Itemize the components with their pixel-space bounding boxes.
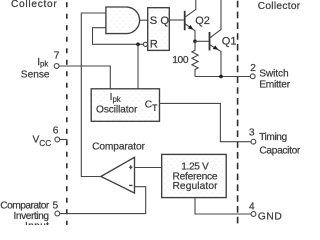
svg-text:GND: GND bbox=[258, 212, 282, 223]
IC boundary left dashed line bbox=[66, 0, 68, 225]
wire AND gate output to latch S input bbox=[140, 19, 148, 21]
svg-text:2: 2 bbox=[250, 63, 256, 74]
comparator - input marker bbox=[129, 184, 132, 186]
svg-text:Input: Input bbox=[25, 221, 49, 225]
oscillator box bbox=[91, 89, 159, 122]
svg-text:Sense: Sense bbox=[21, 70, 50, 81]
svg-text:5: 5 bbox=[53, 201, 59, 212]
transistor Q2 bbox=[185, 0, 196, 41]
svg-text:Ipk: Ipk bbox=[37, 57, 48, 69]
svg-text:Regulator: Regulator bbox=[172, 181, 218, 192]
svg-text:Timing: Timing bbox=[259, 132, 287, 143]
pin 5 terminal circle bbox=[55, 211, 60, 216]
svg-text:Q2: Q2 bbox=[195, 15, 210, 27]
pin 2 terminal circle bbox=[250, 74, 255, 79]
svg-text:Q: Q bbox=[160, 15, 169, 27]
wire comparator output to AND gate top input bbox=[81, 13, 106, 177]
svg-text:Switch: Switch bbox=[259, 69, 289, 80]
IC boundary right dashed line bbox=[237, 0, 239, 225]
svg-text:3: 3 bbox=[249, 127, 255, 138]
svg-text:Collector: Collector bbox=[258, 1, 300, 12]
wire junction to oscillator box top bbox=[137, 44, 139, 89]
resistor R1 100 ohm bbox=[192, 41, 198, 76]
comparator + input marker bbox=[129, 165, 133, 169]
svg-text:100: 100 bbox=[172, 55, 189, 66]
svg-text:Q1: Q1 bbox=[222, 35, 237, 47]
reference regulator box bbox=[162, 154, 227, 197]
wire comparator + input to reference bbox=[135, 167, 162, 169]
svg-text:R: R bbox=[150, 39, 158, 51]
svg-text:6: 6 bbox=[53, 125, 59, 136]
node Q2 emitter / Q1 base / resistor junction bbox=[193, 40, 197, 44]
svg-text:S: S bbox=[150, 15, 157, 27]
wire switch emitter rail to pin 2 bbox=[195, 76, 250, 78]
wire CT to pin 3 bbox=[160, 103, 251, 141]
latch box bbox=[148, 8, 170, 51]
transistor Q1 bbox=[210, 0, 222, 77]
wire pin 6 stub bbox=[60, 139, 68, 141]
svg-text:VCC: VCC bbox=[33, 135, 52, 148]
wire oscillator to AND gate bottom input bbox=[93, 28, 144, 45]
svg-text:Capacitor: Capacitor bbox=[259, 145, 300, 156]
wire junction to Q1 base bbox=[195, 40, 209, 42]
node Q1 emitter junction bbox=[219, 75, 223, 79]
pin 6 terminal circle bbox=[55, 137, 60, 142]
svg-text:Collector: Collector bbox=[11, 0, 57, 10]
comparator triangle bbox=[101, 157, 135, 193]
wire comparator - input to pin 5 bbox=[60, 187, 146, 214]
pin 7 terminal circle bbox=[54, 64, 59, 69]
node oscillator/R junction bbox=[136, 43, 140, 47]
pin 4 terminal circle bbox=[251, 212, 256, 217]
svg-text:Comparator: Comparator bbox=[92, 142, 145, 153]
svg-text:4: 4 bbox=[249, 201, 255, 212]
svg-text:7: 7 bbox=[54, 51, 60, 62]
wire pin 7 to oscillator bbox=[59, 66, 110, 89]
wire latch Q output to Q2 base bbox=[169, 19, 184, 21]
latch R input bubble bbox=[143, 42, 147, 46]
pin 3 terminal circle bbox=[251, 139, 256, 144]
AND gate U1 bbox=[106, 7, 140, 34]
wire reference regulator to pin 4 GND bbox=[195, 198, 251, 214]
svg-text:Emitter: Emitter bbox=[259, 80, 290, 91]
svg-text:Oscillator: Oscillator bbox=[96, 104, 138, 115]
